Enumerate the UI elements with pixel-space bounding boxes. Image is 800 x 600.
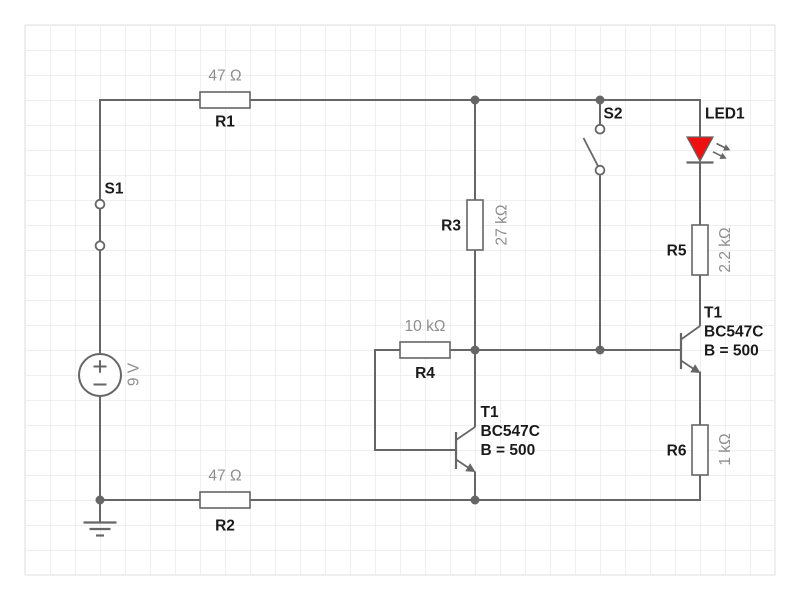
svg-text:B = 500: B = 500 <box>481 442 536 459</box>
node ground junction <box>96 496 105 505</box>
node B junction at R4/R3 <box>471 346 480 355</box>
wire S1 to battery <box>99 250 101 354</box>
node S2-base junction <box>596 346 605 355</box>
wire R4 right lead <box>450 349 475 351</box>
wire LED cathode to R5 <box>699 163 701 226</box>
resistor R3 <box>441 200 510 250</box>
svg-text:S1: S1 <box>105 181 124 198</box>
wire R3 top lead <box>474 100 476 200</box>
svg-text:1 kΩ: 1 kΩ <box>717 433 734 465</box>
resistor R2 <box>200 468 250 535</box>
wire R6 to bottom rail right of R2 <box>250 475 700 500</box>
svg-text:LED1: LED1 <box>705 106 745 123</box>
svg-text:BC547C: BC547C <box>481 423 540 440</box>
wire battery to ground node <box>99 396 101 500</box>
svg-text:R4: R4 <box>415 365 435 382</box>
svg-text:R5: R5 <box>667 243 687 260</box>
wire S2 top lead <box>599 100 601 125</box>
svg-text:T1: T1 <box>704 305 722 322</box>
resistor R6 <box>667 425 734 475</box>
resistor R5 <box>667 225 734 275</box>
svg-text:BC547C: BC547C <box>704 324 763 341</box>
svg-text:R6: R6 <box>667 443 687 460</box>
wire S2 bottom lead to node B rail <box>599 175 601 350</box>
svg-text:2.2 kΩ: 2.2 kΩ <box>717 227 734 272</box>
wire T1b emitter to R6 <box>699 372 701 426</box>
svg-text:R1: R1 <box>215 114 235 131</box>
node top-S2 junction <box>596 96 605 105</box>
svg-text:R2: R2 <box>215 518 235 535</box>
svg-text:9 V: 9 V <box>126 362 143 386</box>
wire top rail right of R1 and LED anode drop <box>250 100 700 137</box>
node emitter-bottom junction <box>471 496 480 505</box>
wire top rail left of R1 with corner to S1 <box>100 100 200 200</box>
svg-text:47 Ω: 47 Ω <box>208 68 241 85</box>
wire R4 left lead loop <box>375 350 456 450</box>
transistor T1b (right BC547C) <box>681 305 763 374</box>
svg-text:R3: R3 <box>441 218 461 235</box>
wire R3 bottom to node B <box>474 250 476 350</box>
LED1 <box>687 106 746 163</box>
battery V1 9V source <box>79 354 143 396</box>
svg-text:47 Ω: 47 Ω <box>208 468 241 485</box>
svg-text:10 kΩ: 10 kΩ <box>405 318 446 335</box>
svg-text:B = 500: B = 500 <box>704 343 759 360</box>
wire S1 closed path <box>99 200 101 250</box>
wire T1a emitter lead <box>474 472 476 501</box>
ground <box>84 500 117 536</box>
resistor R4 <box>400 318 450 382</box>
wire bottom rail left of R2 <box>100 499 200 501</box>
svg-text:S2: S2 <box>604 106 623 123</box>
wire R5 to T1b collector <box>699 275 701 326</box>
svg-text:27 kΩ: 27 kΩ <box>494 205 511 246</box>
wire node B to T1b base <box>475 349 681 351</box>
resistor R1 <box>200 68 250 131</box>
node top-R3 junction <box>471 96 480 105</box>
svg-text:T1: T1 <box>481 404 499 421</box>
switch S2 (open) <box>584 106 623 175</box>
switch S1 (closed) <box>96 181 124 251</box>
wire T1a collector lead <box>474 350 476 427</box>
transistor T1a (left BC547C) <box>456 404 540 472</box>
